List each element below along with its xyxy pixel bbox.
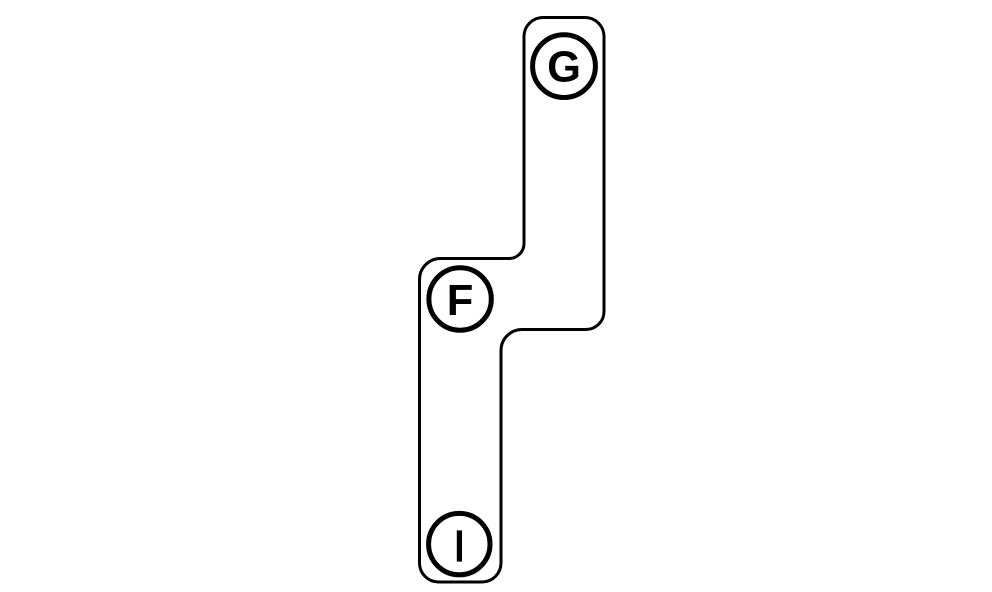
pulley G circle <box>533 35 596 98</box>
belt outline <box>420 18 605 583</box>
svg-text:G: G <box>547 43 581 91</box>
pulley I circle <box>429 513 490 574</box>
pulley F circle <box>429 268 491 330</box>
pulley I label bar <box>457 530 462 561</box>
svg-text:F: F <box>447 277 474 325</box>
